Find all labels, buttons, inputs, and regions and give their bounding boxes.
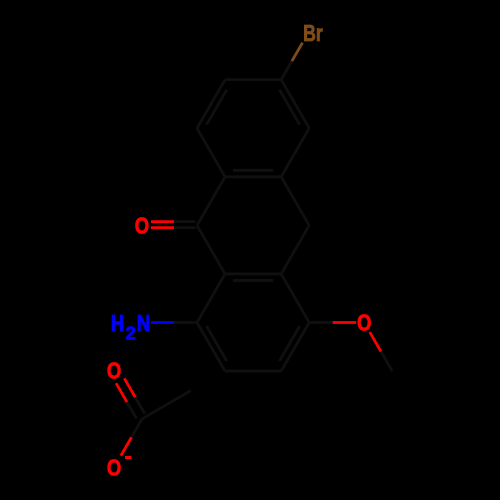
bond N-C(ring): blue half near N [151,321,174,324]
ketone C=O double bond (red halves + dark halves) [151,220,174,223]
bond C-Br (brown half near Br) [292,43,303,61]
CH2 bridge bond: CH2 to bottom ring T2 [281,225,309,274]
top ring aromatic inner double-bond lines [233,169,273,172]
top ring bond C6-C5 [281,80,309,129]
svg-text:Br: Br [303,20,323,46]
svg-text:O: O [135,213,149,239]
bottom ring bond C1-C9a [197,274,225,323]
svg-text:O: O [357,310,371,336]
bottom ring bond C2-C1 [197,323,225,372]
svg-text:H: H [111,310,125,336]
top ring bond C8-C7 [197,80,225,129]
top ring bond C10a-C8a [225,175,281,178]
top ring bond C7-C6 (C-Br carbon) [225,78,281,81]
bond O-CH3 (methoxy): red half near O [370,332,381,352]
bond ketone C to top ring X1 [197,177,225,226]
bond ring R1 to O(methoxy): red half near O [309,321,333,324]
bond ketone C to bottom ring T1 [197,225,225,274]
svg-text:2: 2 [125,323,135,344]
svg-text:O: O [107,454,121,480]
bottom ring bond C4-C3 [281,323,309,372]
svg-text:O: O [107,357,121,383]
bottom ring bond C9a-C4a [225,273,281,276]
bottom ring aromatic inner double-bond lines [233,279,273,282]
bond acetate C-CH3 [142,391,191,419]
top ring bond C8a-C8 [197,128,225,177]
svg-text:N: N [137,310,151,336]
CH2 bridge bond: top ring BR vertex to CH2 [281,177,309,226]
bond acetate C-O(-): red half near O [121,437,132,455]
acetate C=O double bond (two red halves + dark halves) [116,383,127,402]
bottom ring bond C3-C2 [225,370,281,373]
top ring bond C5-C10a [281,128,309,177]
bottom ring bond C4a-C4 (C-OMe carbon) [281,274,309,323]
